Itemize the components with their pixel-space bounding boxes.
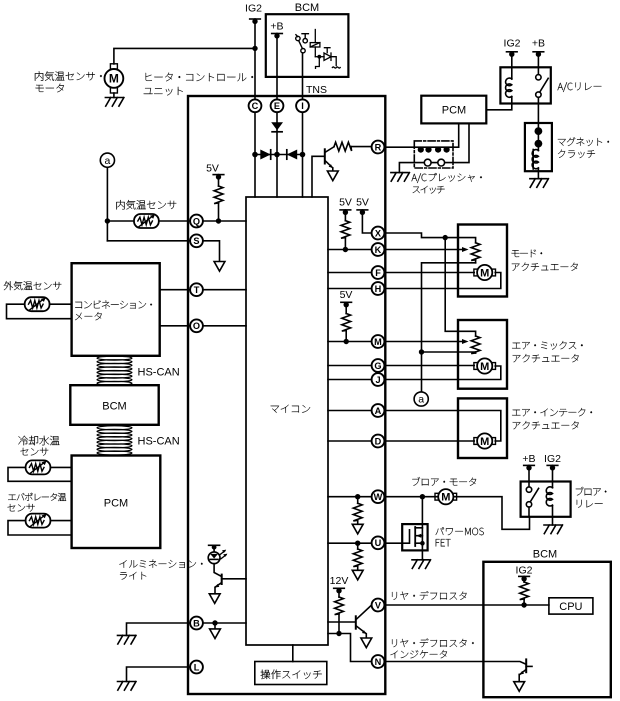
box air intake actuator (458, 398, 507, 458)
wire pin F to mode motor (385, 272, 474, 274)
text label rear-def-indicator-label (391, 639, 474, 659)
LED illumination light (208, 550, 227, 564)
svg-text:J: J (375, 375, 380, 385)
ground below B (118, 635, 137, 644)
terminal IG2 A/C relay (507, 52, 518, 57)
svg-text:PCM: PCM (104, 498, 128, 510)
wire coolant temp sensor loop (8, 467, 72, 481)
wire microcomputer to pin U (328, 542, 371, 544)
wire meter to pin T (160, 289, 190, 291)
pin T (190, 283, 203, 296)
wire node a down to S (106, 167, 108, 241)
wire FET drain vertical (421, 497, 423, 546)
diode D3 I to E (287, 150, 297, 160)
svg-text:+B: +B (532, 38, 545, 50)
resistor U pulldown (353, 543, 362, 570)
pin Q (190, 215, 203, 228)
terminal +B A/C relay (533, 52, 544, 57)
svg-text:T: T (194, 285, 200, 295)
wire IG2 to relay coil (511, 52, 513, 79)
svg-text:IG2: IG2 (544, 453, 561, 465)
box magnet clutch (525, 123, 552, 171)
wire 5V branch down to air mix pot (445, 238, 475, 336)
svg-text:H: H (375, 284, 382, 294)
wire pin J to air mix motor loop (385, 366, 501, 380)
wire pin Q to microcomputer (203, 220, 246, 222)
wire microcomputer to transistor Q4 base (328, 621, 355, 623)
wire +B to relay switch (528, 465, 530, 487)
motor M intake air temp sensor motor (105, 64, 124, 93)
wire microcomputer to pin G (328, 365, 371, 367)
text label rear-defroster-label (392, 591, 467, 600)
signal ground arrow Q4 (361, 638, 372, 648)
text label sousa-switch (261, 670, 322, 679)
pin K (372, 243, 385, 256)
wire pin V to CPU (385, 604, 549, 606)
pin C (249, 99, 262, 112)
terminal 12V pullup (334, 588, 345, 593)
pin O (190, 319, 203, 332)
arrowhead Q2 emitter (215, 584, 219, 588)
wire pin X stepped 5V reference (385, 233, 476, 243)
pin S (190, 234, 203, 247)
svg-text:F: F (375, 268, 381, 278)
node junction B ground branch (212, 620, 217, 625)
node junction I diode row (300, 152, 306, 158)
terminal 5V M pullup (341, 302, 352, 307)
pin D (372, 435, 385, 448)
wire microcomputer to operation switch (292, 645, 294, 662)
svg-text:U: U (375, 538, 382, 548)
thermistor coolant temp sensor (26, 460, 51, 474)
box BCM bottom (483, 562, 610, 697)
box PCM middle (72, 456, 161, 549)
pin A (372, 404, 385, 417)
svg-text:IG2: IG2 (516, 565, 533, 577)
svg-text:PCM: PCM (442, 105, 466, 117)
svg-text:C: C (252, 101, 259, 111)
pin J (372, 373, 385, 386)
svg-text:W: W (374, 492, 383, 502)
ground below blower relay (544, 525, 563, 534)
wire pressure switch bottom row (414, 123, 469, 162)
wire inside air temp sensor to pin Q (107, 220, 189, 222)
node junction IG2/motor wire (252, 46, 257, 51)
box blower relay (521, 482, 571, 517)
arrowhead FET body (416, 534, 421, 538)
potentiometer air mix actuator (471, 336, 480, 354)
wire microcomputer to pin K (328, 249, 371, 251)
diode D2 C to E (260, 150, 270, 160)
svg-text:I: I (301, 101, 304, 111)
svg-text:+B: +B (270, 21, 283, 33)
wire PCM to A/C relay coil (486, 104, 512, 110)
wire +B to pin E (276, 34, 278, 100)
pin L (190, 661, 203, 674)
node junction air mix return on a line (419, 349, 424, 354)
ground below intake sensor motor (105, 98, 124, 107)
box microcomputer (246, 197, 328, 645)
wire motor to ground (113, 93, 115, 98)
pin V (372, 599, 385, 612)
transistor power MOS FET symbol (415, 527, 422, 546)
pin X (372, 227, 385, 240)
ground below magnet clutch (530, 179, 549, 188)
svg-text:N: N (375, 657, 382, 667)
svg-text:G: G (374, 361, 381, 371)
contacts pressure switch top row (418, 147, 450, 153)
HS-CAN coil meter to BCM (97, 356, 132, 385)
wire clutch contacts to coil (537, 131, 539, 150)
terminal IG2 blower relay (547, 465, 558, 470)
text label naikion-sensa-mota (35, 71, 102, 92)
text label combination-meter (75, 301, 152, 321)
box A/C pressure switch dashed (414, 141, 453, 168)
wire pin W to blower motor (385, 496, 438, 498)
text label heater-control-unit (144, 73, 253, 96)
text label ac-pressure-switch (412, 173, 482, 193)
node junction R2 on Q wire (216, 218, 221, 223)
svg-text:5V: 5V (356, 197, 369, 209)
ground below pressure switch (391, 173, 410, 182)
motor air intake actuator (474, 433, 496, 448)
wire pin N to BCM transistor (385, 662, 526, 665)
resistor 12V pullup (335, 588, 344, 633)
resistor W pulldown (353, 497, 362, 525)
wire coil to ground (552, 506, 554, 525)
transistor Q1 driver for pin R (312, 147, 334, 197)
wire IG2 to intake sensor motor (114, 48, 255, 64)
coil A/C relay (506, 78, 512, 97)
switch blower relay (526, 487, 538, 517)
box combination meter (72, 263, 160, 356)
arrowhead K wiper (462, 247, 469, 252)
node junction diode in BCM (317, 55, 321, 59)
signal ground arrow Q2 (209, 594, 220, 604)
potentiometer mode actuator (471, 243, 480, 263)
svg-text:M: M (374, 337, 382, 347)
wire Q4 emitter stem (365, 634, 367, 638)
wire microcomputer to pin M (328, 341, 371, 343)
box BCM middle (70, 385, 158, 425)
signal ground arrow Q5 (514, 682, 525, 692)
signal ground arrow S (214, 262, 225, 272)
box operation switch (255, 662, 327, 685)
svg-text:HS-CAN: HS-CAN (138, 367, 180, 379)
wire a to pin S (107, 240, 189, 242)
svg-text:X: X (375, 228, 382, 238)
svg-text:O: O (193, 321, 200, 331)
wire blower motor to relay (454, 497, 529, 530)
svg-text:HS-CAN: HS-CAN (138, 436, 180, 448)
node junction M pullup (344, 339, 349, 344)
svg-text:5V: 5V (206, 162, 219, 174)
svg-text:D: D (375, 436, 382, 446)
svg-text:M: M (109, 72, 119, 86)
svg-text:12V: 12V (330, 575, 349, 587)
signal ground arrow U (352, 570, 363, 580)
text label evaporator-sensa (8, 493, 67, 512)
wire meter to pin O (160, 325, 190, 327)
svg-text:L: L (194, 662, 200, 672)
resistor M pullup (342, 302, 351, 341)
resistor IG2 BCM bottom (520, 576, 529, 605)
wire microcomputer to pin H (328, 288, 371, 290)
wire Q5 emitter stem (518, 674, 520, 681)
pin R (372, 141, 385, 154)
pin W (372, 490, 385, 503)
node junction a / Q sensor wire (105, 218, 110, 223)
node a top-left (100, 153, 114, 167)
text label naikion-sensa (117, 200, 177, 209)
terminal IG2 top (250, 19, 261, 24)
text label maikon (271, 405, 310, 413)
signal ground arrow Q1 (327, 171, 338, 181)
wire pin C into microcomputer (254, 113, 256, 197)
wire coil to box bottom (511, 97, 513, 104)
svg-text:V: V (375, 600, 382, 610)
svg-text:BCM: BCM (295, 2, 319, 14)
terminal +B in BCM (272, 33, 283, 38)
svg-text:E: E (274, 101, 280, 111)
text label blower-relay-label (576, 487, 607, 508)
terminal +B blower relay (524, 465, 535, 470)
motor air mix actuator (474, 358, 496, 373)
wire FET source to ground (421, 543, 423, 560)
contacts pressure switch bottom row (424, 159, 444, 166)
wire air mix pot return (422, 351, 476, 353)
text label reikyaku-suion (19, 436, 60, 456)
svg-text:a: a (104, 155, 110, 167)
terminal 5V pullup Q (213, 174, 224, 179)
resistor R1 horizontal on R line (334, 142, 352, 151)
pin E (271, 99, 284, 112)
terminal IG2 BCM bottom (519, 576, 530, 581)
svg-text:S: S (193, 236, 199, 246)
terminal illumination feed (209, 545, 220, 550)
wire Q1 emitter stem (332, 168, 334, 171)
node junction FET source (420, 541, 425, 546)
text label magnet-clutch (558, 138, 609, 159)
wire mode pot return to node a line (422, 263, 476, 392)
node junction W to FET drain (420, 494, 425, 499)
text label intake-actuator-label (512, 408, 592, 429)
box A/C relay (500, 67, 550, 103)
transistor Q4 rear defroster driver (356, 605, 371, 633)
svg-text:IG2: IG2 (504, 38, 521, 50)
box BCM top (266, 14, 349, 77)
wire pin I into microcomputer (302, 113, 304, 197)
wire pin H to mode motor loop (385, 273, 501, 289)
wire microcomputer to pin N with 12V junction (328, 634, 371, 662)
switch TNS in BCM (296, 34, 309, 53)
text label ac-relay-label (558, 82, 602, 91)
motor blower (435, 489, 457, 504)
wire clutch coil to ground (537, 169, 539, 179)
HS-CAN coil BCM to PCM (97, 426, 132, 455)
box CPU (549, 598, 593, 614)
transistor Q5 indicator in BCM (520, 659, 532, 674)
arrowhead Q4 emitter (362, 630, 366, 634)
wire relay switch to magnet clutch (537, 97, 539, 127)
wire evaporator temp sensor loop (8, 521, 72, 535)
contacts magnet clutch (535, 127, 543, 147)
switch A/C relay (536, 75, 549, 98)
wire pin A to intake motor loop (385, 411, 501, 442)
wire resistor to pin R (351, 146, 371, 148)
svg-text:R: R (375, 142, 382, 152)
wire microcomputer to pin F (328, 272, 371, 274)
box mode actuator (458, 225, 507, 297)
pin B (190, 617, 203, 630)
thermistor outside air temp sensor (25, 297, 50, 311)
wire pin T to microcomputer (203, 289, 246, 291)
wire IG2 to relay coil (552, 465, 554, 487)
node junction 12V on N wire (336, 631, 341, 636)
signal ground arrow W (352, 524, 363, 534)
pin U (372, 536, 385, 549)
wire +B to relay switch (537, 52, 539, 75)
svg-text:5V: 5V (340, 289, 353, 301)
wire LED to transistor Q2 (214, 564, 221, 577)
terminal 5V K pullup (340, 210, 351, 215)
svg-text:+B: +B (522, 453, 535, 465)
wire pin O to microcomputer (203, 325, 246, 327)
node junction U pulldown (355, 541, 360, 546)
text label airmix-actuator-label (512, 341, 582, 362)
node junction E diode row (274, 152, 280, 158)
svg-text:K: K (375, 245, 382, 255)
diode driver symbol in BCM (315, 48, 340, 69)
thermistor evaporator temp sensor (26, 514, 51, 528)
arrowhead Q5 emitter (520, 671, 524, 675)
node junction IG2 resistor on V wire (521, 602, 526, 607)
wire pin D to intake motor (385, 440, 474, 442)
wire TNS switch to pin I (302, 53, 304, 99)
resistor K pullup (341, 210, 350, 250)
node junction X branch to air mix (443, 235, 448, 240)
wire pin L to chassis ground (127, 667, 190, 682)
wire microcomputer to pin D (328, 440, 371, 442)
pin I (296, 99, 309, 112)
svg-text:CPU: CPU (559, 601, 582, 613)
transistor Q2 illumination driver (215, 575, 246, 588)
wire pin U to FET gate (385, 530, 410, 543)
relay coil symbol in BCM (310, 30, 320, 57)
wire pressure switch to ground (399, 163, 414, 173)
arrowhead M wiper (462, 339, 469, 344)
svg-text:Q: Q (193, 216, 200, 226)
svg-text:5V: 5V (339, 197, 352, 209)
arrowhead Q1 emitter (329, 164, 333, 168)
wire outside air temp sensor loop (7, 304, 72, 319)
coil blower relay (546, 487, 552, 506)
motor mode actuator (474, 265, 496, 280)
node junction W pulldown (355, 494, 360, 499)
wire 5V to pin X (362, 210, 371, 233)
pin N (372, 655, 385, 668)
wire pin K to wiper (385, 249, 464, 251)
wire pin B to chassis ground (127, 623, 190, 635)
terminal 5V X feed (357, 210, 368, 215)
node a right (414, 392, 428, 406)
ground below FET (412, 560, 431, 569)
pin G (372, 359, 385, 372)
wire B junction stem (214, 623, 216, 629)
text label illumination-light (120, 560, 203, 580)
box air mix actuator (458, 320, 507, 389)
wire microcomputer to pin A (328, 410, 371, 412)
svg-text:BCM: BCM (533, 549, 557, 561)
svg-text:a: a (418, 394, 424, 406)
pin H (372, 282, 385, 295)
diode D1 on E line (271, 122, 283, 132)
wire Q2 emitter stem (214, 588, 216, 594)
wire microcomputer to pin W (328, 496, 371, 498)
thermistor inside air temp sensor (134, 214, 159, 228)
box heater control unit outline (188, 96, 385, 694)
wire terminal to LED (213, 545, 215, 552)
svg-text:IG2: IG2 (245, 3, 262, 15)
coil magnet clutch with core (532, 150, 538, 170)
pin M (372, 335, 385, 348)
box power MOS FET (402, 524, 427, 550)
wire microcomputer to pin J (328, 379, 371, 381)
resistor R2 pullup Q (214, 175, 223, 221)
svg-text:B: B (193, 618, 200, 628)
wire pin G to air mix motor (385, 365, 474, 367)
wire pin B to microcomputer (203, 622, 246, 624)
wire IG2 feed vertical to pin C (254, 19, 256, 99)
wire pin R to pressure switch and PCM (385, 123, 459, 147)
signal ground arrow B (210, 629, 221, 639)
svg-text:TNS: TNS (306, 84, 327, 96)
svg-text:A: A (375, 406, 382, 416)
wire pin S to signal ground (203, 241, 219, 262)
pin F (372, 266, 385, 279)
wire pin E into microcomputer (276, 113, 278, 197)
ground below L (118, 682, 137, 691)
text label power-mos-fet-label (436, 527, 484, 546)
box PCM top (421, 96, 486, 124)
wire diode row C-E-I (255, 154, 303, 156)
node junction C diode row (252, 152, 258, 158)
text label blower-motor-label (412, 477, 476, 486)
text label gaikion-sensa (4, 281, 62, 290)
node junction K pullup (343, 247, 348, 252)
svg-text:BCM: BCM (102, 401, 126, 413)
text label mode-actuator-label (512, 250, 578, 271)
wire pin M to air mix wiper (385, 341, 464, 343)
